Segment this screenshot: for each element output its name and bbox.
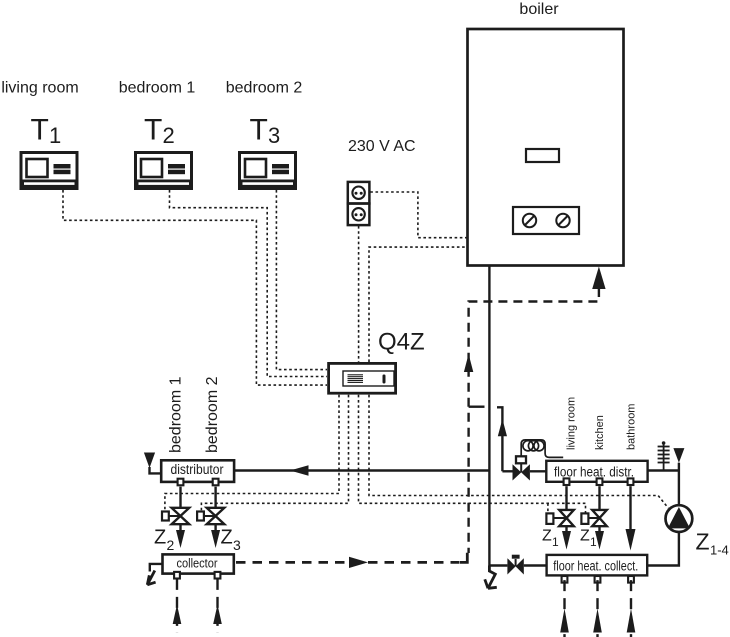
pipe distr box to pump riser [648, 469, 679, 471]
wire Q4Z to boiler [369, 247, 468, 362]
wire thermostat T2 to Q4Z [170, 190, 328, 377]
svg-text:Z: Z [154, 527, 166, 549]
return pipe dashed from boiler [469, 288, 599, 553]
collector connector 1 [174, 572, 180, 579]
thermostat T2 [136, 153, 192, 189]
label Q4Z [378, 329, 425, 356]
boiler [468, 29, 624, 266]
label living room (rotated) [566, 397, 578, 450]
collect connector kitchen [595, 576, 601, 583]
flow arrow up on return pipe [464, 354, 473, 372]
return arrow into boiler [592, 267, 605, 290]
riser elbow to floor heating supply [497, 407, 502, 471]
air vent [658, 441, 670, 470]
floor heat distr box [546, 461, 647, 482]
wire branch to valve Z1a [547, 503, 549, 513]
label T3 [250, 114, 281, 149]
pipe supply valve to distr box [530, 470, 546, 472]
pipe collect valve to box [524, 564, 547, 566]
svg-text:floor heat. collect.: floor heat. collect. [553, 558, 638, 573]
svg-text:Q4Z: Q4Z [378, 329, 425, 356]
floor heating collect valve [507, 555, 523, 575]
distributor flag (vent) [144, 453, 161, 474]
svg-text:bedroom 2: bedroom 2 [226, 80, 303, 97]
wire Q4Z to valve Z3 [201, 395, 348, 511]
label Z1a [542, 528, 559, 550]
flow arrow on collector return [349, 557, 368, 568]
label boiler [519, 1, 559, 18]
floor loop return bathroom [627, 580, 636, 637]
label floor heat. collect. [553, 558, 638, 573]
junction tick on return pipe [469, 406, 485, 408]
svg-text:1: 1 [590, 535, 597, 549]
svg-text:kitchen: kitchen [594, 415, 606, 450]
mains outlet 230V [348, 182, 370, 225]
label collector [176, 556, 217, 571]
label bedroom 2 [226, 80, 303, 97]
valve Z1a [546, 510, 573, 526]
label living room [1, 80, 78, 97]
label 230 V AC [348, 138, 416, 155]
svg-text:T: T [250, 114, 268, 147]
svg-text:collector: collector [176, 556, 217, 571]
svg-text:Z: Z [221, 527, 233, 549]
flow arrow left on supply line [290, 465, 309, 476]
collector box [163, 554, 234, 573]
label Z1b [580, 528, 597, 550]
wire outlet to Q4Z [358, 226, 360, 362]
flow arrow up on riser [498, 419, 507, 436]
svg-text:T: T [31, 114, 49, 147]
label Z1-4 [696, 529, 729, 558]
svg-text:bedroom 1: bedroom 1 [119, 80, 196, 97]
thermostatic head coil [521, 440, 563, 458]
valve Z3 [197, 508, 224, 524]
boiler drain arrow (zigzag) [485, 566, 497, 589]
floor heating supply valve [513, 456, 530, 480]
valve Z2 [162, 508, 189, 524]
label bedroom 1 [119, 80, 196, 97]
svg-text:3: 3 [268, 123, 280, 148]
svg-text:1: 1 [552, 535, 559, 549]
floor loop return living room [560, 580, 569, 637]
label floor heat. distr. [554, 464, 634, 479]
label T1 [31, 114, 62, 149]
wire Q4Z to valve Z2 [165, 395, 339, 511]
svg-text:Z: Z [542, 528, 552, 545]
svg-text:floor heat. distr.: floor heat. distr. [554, 464, 634, 479]
distr connector living room [564, 478, 570, 485]
collector drain arrow (zigzag) [147, 571, 155, 585]
svg-text:1: 1 [49, 123, 61, 148]
svg-text:bedroom 1: bedroom 1 [168, 376, 185, 453]
controller Q4Z [329, 363, 396, 393]
floor loop return kitchen [593, 580, 602, 637]
flow arrow Z3 to collector [211, 524, 220, 548]
svg-text:T: T [144, 114, 162, 147]
floor loop return 1 to collector [173, 579, 182, 633]
floor heat collect box [547, 555, 648, 576]
label bathroom (rotated) [626, 404, 638, 450]
label distributor [171, 462, 224, 477]
label Z2 [154, 527, 175, 554]
collect connector living room [562, 576, 568, 583]
svg-text:2: 2 [163, 123, 175, 148]
wire thermostat T3 to Q4Z [276, 190, 327, 370]
floor loop return 2 to collector [213, 579, 222, 633]
label Z3 [221, 527, 242, 554]
pipe distributor to valve Z3 [214, 487, 216, 508]
pipe pump to collect box [647, 532, 679, 566]
svg-text:living room: living room [1, 80, 78, 97]
pump Z1-4 [666, 505, 693, 532]
collector return dashed line [236, 561, 459, 564]
wire Q4Z to valves Z1 [359, 395, 586, 513]
svg-text:distributor: distributor [171, 462, 224, 477]
svg-text:bedroom 2: bedroom 2 [204, 376, 221, 453]
svg-text:1-4: 1-4 [710, 543, 729, 558]
label T2 [144, 114, 175, 149]
svg-text:boiler: boiler [519, 1, 559, 18]
distr connector bathroom [628, 478, 634, 485]
svg-text:230 V AC: 230 V AC [348, 138, 416, 155]
pipe distr to valve Z1b [598, 486, 600, 510]
svg-text:bathroom: bathroom [626, 404, 638, 450]
flow arrow Z1a to collect [562, 526, 571, 549]
flow arrow Z2 to collector [176, 524, 185, 548]
label kitchen (rotated) [594, 415, 606, 450]
flag (vent) on pump riser [673, 448, 684, 463]
wire thermostat T1 to Q4Z [63, 190, 327, 385]
label bedroom 1 (rotated) [168, 376, 185, 453]
distr connector kitchen [597, 478, 603, 485]
svg-text:living room: living room [566, 397, 578, 450]
svg-text:2: 2 [167, 537, 175, 553]
return pipe corner elbow [460, 553, 468, 563]
label bedroom 2 (rotated) [204, 376, 221, 453]
svg-text:Z: Z [580, 528, 590, 545]
thermostat T3 [240, 153, 296, 189]
distributor box [161, 460, 234, 482]
pipe riser to pump [678, 463, 680, 506]
wire Q4Z to pump [369, 395, 668, 508]
collector connector 2 [215, 572, 221, 579]
svg-text:3: 3 [233, 537, 241, 553]
pipe distributor to valve Z2 [179, 487, 181, 508]
distributor connector 1 [178, 479, 184, 486]
distributor connector 2 [213, 479, 219, 486]
pipe riser to supply valve [502, 470, 512, 472]
flow arrow bathroom to collect [626, 529, 636, 551]
pipe to collect valve [489, 564, 507, 566]
valve Z1b [581, 510, 606, 526]
collect connector bathroom [628, 576, 634, 583]
collector drain elbow [150, 564, 163, 572]
supply pipe from boiler (solid vertical) [488, 266, 490, 566]
flow arrow Z1b to collect [595, 526, 604, 549]
wire outlet to boiler [370, 192, 467, 238]
supply line to distributor [234, 469, 489, 471]
svg-text:Z: Z [696, 529, 710, 555]
thermostat T1 [21, 153, 77, 189]
pipe distr to valve Z1a [565, 486, 567, 510]
pipe distr to bathroom loop [629, 486, 631, 530]
